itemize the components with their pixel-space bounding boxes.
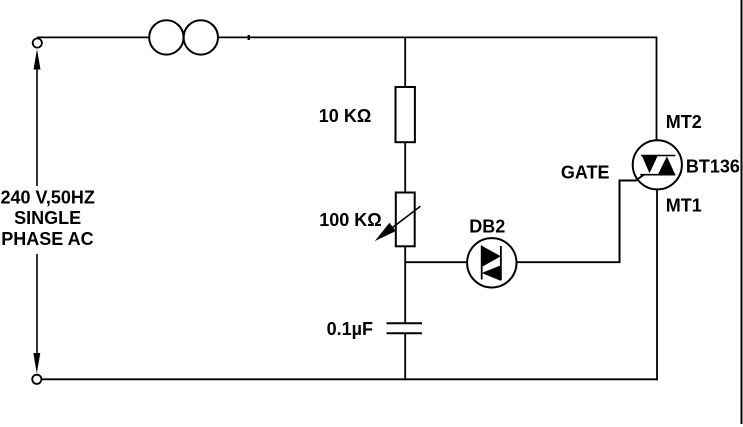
AC source arrow down [33, 254, 40, 374]
wire gate horizontal [619, 180, 637, 182]
wire middle branch top [404, 37, 406, 88]
lamp load [149, 20, 218, 54]
capacitor C1 0.1uF [387, 323, 423, 333]
svg-text:DB2: DB2 [469, 216, 505, 236]
svg-text:MT2: MT2 [666, 112, 702, 132]
wire right branch lower [656, 189, 658, 380]
label 240 V,50HZ SINGLE PHASE AC [1, 188, 95, 250]
svg-text:MT1: MT1 [666, 195, 702, 215]
svg-text:0.1µF: 0.1µF [327, 319, 373, 339]
diac D1 DB2 [467, 238, 516, 287]
svg-text:240 V,50HZ: 240 V,50HZ [1, 188, 95, 208]
wire capacitor to bottom [404, 333, 406, 380]
wire right branch upper [656, 37, 658, 142]
svg-text:GATE: GATE [561, 162, 610, 182]
svg-text:SINGLE: SINGLE [14, 208, 81, 228]
wire R2 to capacitor [404, 246, 406, 323]
AC source terminal bottom [32, 375, 41, 384]
potentiometer R2 100K [375, 193, 421, 247]
wire diac to gate corner [517, 261, 620, 263]
svg-text:10 KΩ: 10 KΩ [319, 106, 371, 126]
resistor R1 10K [396, 87, 415, 142]
svg-text:PHASE AC: PHASE AC [1, 229, 93, 249]
triac U1 BT136 [633, 140, 682, 189]
svg-text:BT136: BT136 [686, 156, 740, 176]
wire bottom [41, 378, 657, 380]
node junction pot-diac [405, 261, 467, 263]
wire top left [37, 36, 150, 38]
AC source terminal top [33, 38, 42, 47]
wire top right [218, 36, 657, 38]
node junction top wire [248, 35, 250, 40]
svg-text:100 KΩ: 100 KΩ [319, 210, 381, 230]
wire gate vertical [619, 181, 621, 264]
AC source arrow up [34, 49, 41, 186]
wire R1 to R2 [404, 142, 406, 192]
